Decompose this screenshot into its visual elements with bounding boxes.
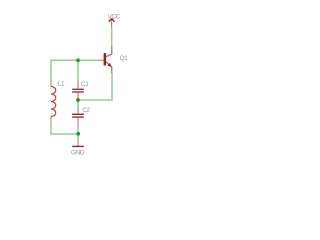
base bar: [104, 53, 107, 66]
C1 plate bottom: [72, 91, 84, 92]
L1 coil: [51, 87, 56, 117]
wire: left column lower segment: [50, 120, 52, 134]
wire: C1 top stub: [77, 60, 79, 79]
pin: ground lead: [77, 139, 79, 145]
pin: C1 top lead: [77, 79, 79, 88]
wire: mid rail (emitter to C1/C2 node): [78, 99, 112, 101]
node B: junction mid rail / C1-C2: [76, 98, 80, 102]
C2 plate bottom: [72, 116, 84, 117]
pin: L1 top lead: [50, 79, 52, 87]
pin: collector lead: [106, 46, 112, 57]
wire: C2 bottom stub: [77, 126, 79, 134]
svg-text:C2: C2: [82, 107, 90, 114]
inductor L1: [51, 79, 56, 120]
emitter arrow: [107, 63, 111, 67]
wire: ground stub below bottom node: [77, 134, 79, 139]
pin: base lead: [98, 59, 104, 61]
wire: left column upper segment: [50, 60, 52, 80]
pin: C2 top lead: [77, 107, 79, 114]
wire: collector column from VCC: [111, 27, 113, 46]
svg-text:C1: C1: [81, 81, 89, 88]
wire: C1 bottom to node stub: [77, 98, 79, 100]
svg-text:Q1: Q1: [120, 55, 128, 62]
wire: C2 top stub: [77, 100, 79, 107]
transistor Q1 (NPN): [98, 46, 112, 73]
pin: emitter lead: [106, 62, 112, 73]
C1 plate top: [72, 89, 84, 90]
wire: top rail (base net, L1/C1 top to Q1 base): [51, 59, 98, 61]
svg-text:L1: L1: [58, 80, 65, 87]
node C: junction bottom rail / ground: [76, 132, 80, 136]
wire: emitter column: [111, 73, 113, 101]
VCC power symbol: [109, 18, 115, 27]
pin: L1 bottom lead: [50, 117, 52, 121]
ground symbol GND: [72, 139, 84, 147]
wire: bottom rail (ground net): [50, 133, 78, 135]
pin: C2 bottom lead: [77, 118, 79, 126]
pin: C1 bottom lead: [77, 93, 79, 99]
capacitor C1: [72, 79, 84, 98]
ground bar: [72, 146, 84, 147]
svg-text:GND: GND: [71, 150, 85, 157]
svg-text:VCC: VCC: [108, 13, 121, 20]
capacitor C2: [72, 107, 84, 127]
node A: junction top rail / C1: [76, 58, 80, 62]
C2 plate top: [72, 114, 84, 115]
